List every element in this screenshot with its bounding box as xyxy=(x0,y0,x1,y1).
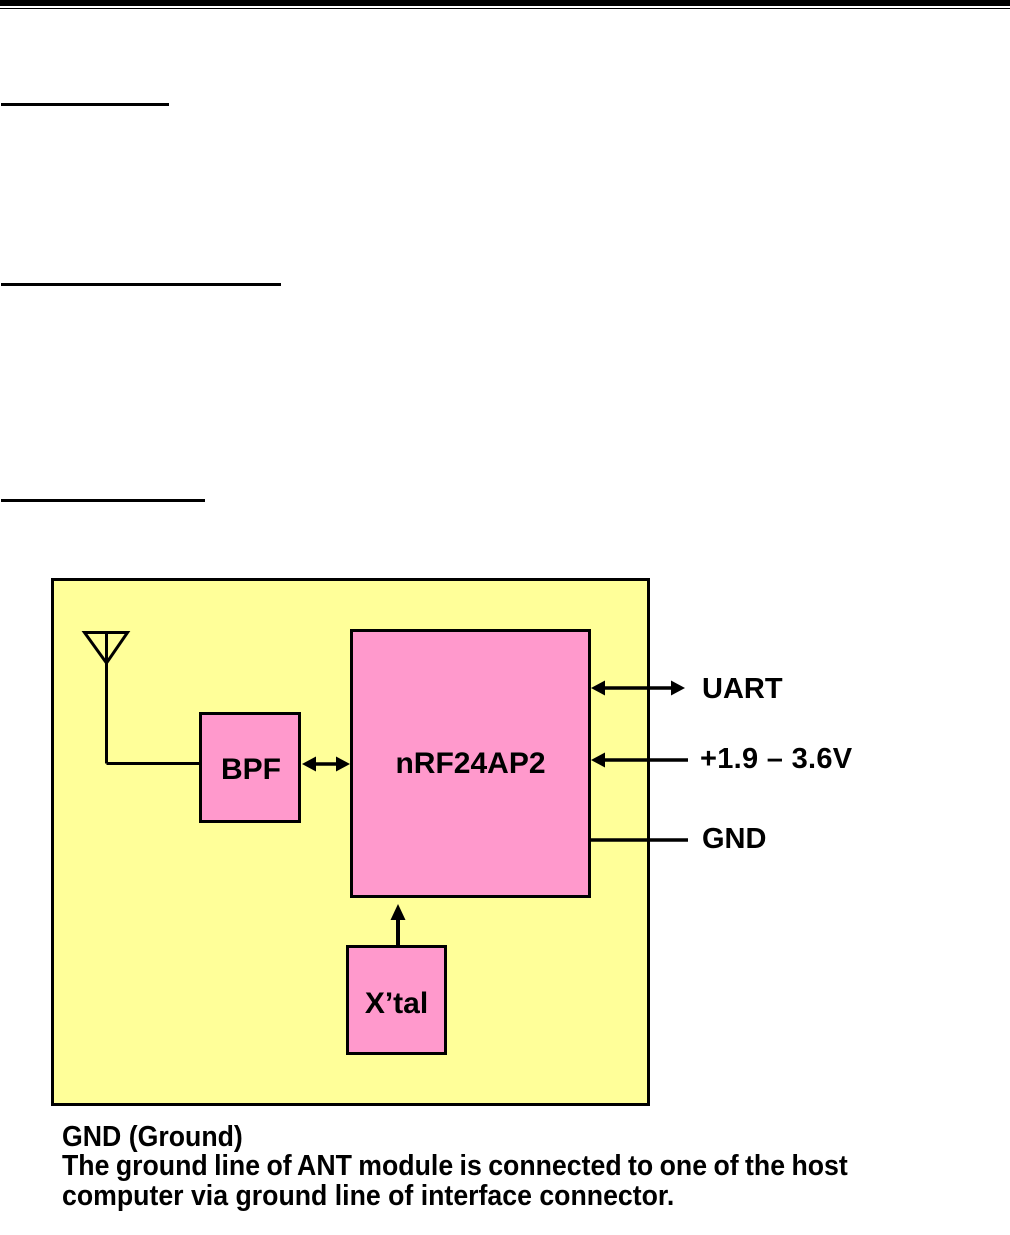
GND wire xyxy=(591,838,688,841)
heading underline 2 xyxy=(1,283,281,286)
double arrow BPF to nRF24AP2 xyxy=(302,757,350,772)
header top thick bar xyxy=(0,0,1010,6)
BPF block xyxy=(199,712,301,823)
nRF24AP2 block xyxy=(350,629,591,898)
+1.9 - 3.6V label xyxy=(700,743,852,776)
caption text xyxy=(62,1123,848,1212)
block diagram outer yellow frame xyxy=(51,578,650,1106)
GND label xyxy=(702,823,766,856)
power supply arrow into nRF24AP2 xyxy=(591,753,688,768)
antenna xyxy=(85,633,128,764)
wire antenna to BPF xyxy=(107,762,202,765)
UART double arrow xyxy=(591,681,685,696)
heading underline 3 xyxy=(1,499,205,502)
arrow X'tal to nRF24AP2 xyxy=(391,904,406,946)
heading underline 1 xyxy=(1,103,169,106)
X'tal block xyxy=(346,945,447,1055)
UART label xyxy=(702,673,783,706)
header thin rule xyxy=(0,8,1010,10)
